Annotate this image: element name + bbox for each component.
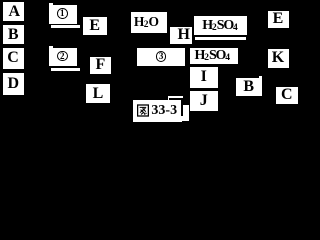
underline strip 2: [51, 68, 80, 70]
box D: [3, 73, 25, 95]
box C2: [276, 87, 298, 105]
caption corner right line: [181, 100, 183, 116]
box C: [3, 48, 24, 69]
caption corner white bump: [182, 105, 189, 121]
box L: [86, 84, 110, 103]
box A: [3, 2, 24, 21]
box H2O: [131, 12, 166, 33]
box circled-2: [49, 48, 77, 66]
figure caption box 图33-3: [133, 100, 183, 122]
box H2SO4 second: [190, 48, 239, 64]
box B: [3, 25, 25, 44]
box I: [190, 67, 219, 88]
blank tab 1: [49, 3, 53, 6]
blank tab 2: [49, 46, 53, 49]
box circled-3: [137, 48, 185, 66]
box E2: [268, 11, 289, 29]
box H: [170, 27, 192, 44]
tab B2: [259, 76, 262, 78]
figure caption tab: [168, 96, 183, 99]
box E1: [83, 17, 108, 35]
box F: [90, 57, 111, 74]
underline strip H2SO4 first: [195, 37, 246, 40]
box J: [190, 91, 219, 111]
caption corner top line: [169, 98, 183, 100]
box K: [268, 49, 289, 68]
box circled-1: [49, 5, 77, 24]
box B2: [236, 78, 263, 96]
hanzi tu icon: [137, 104, 149, 117]
underline strip 1: [51, 25, 80, 27]
box H2SO4 first: [194, 16, 247, 35]
